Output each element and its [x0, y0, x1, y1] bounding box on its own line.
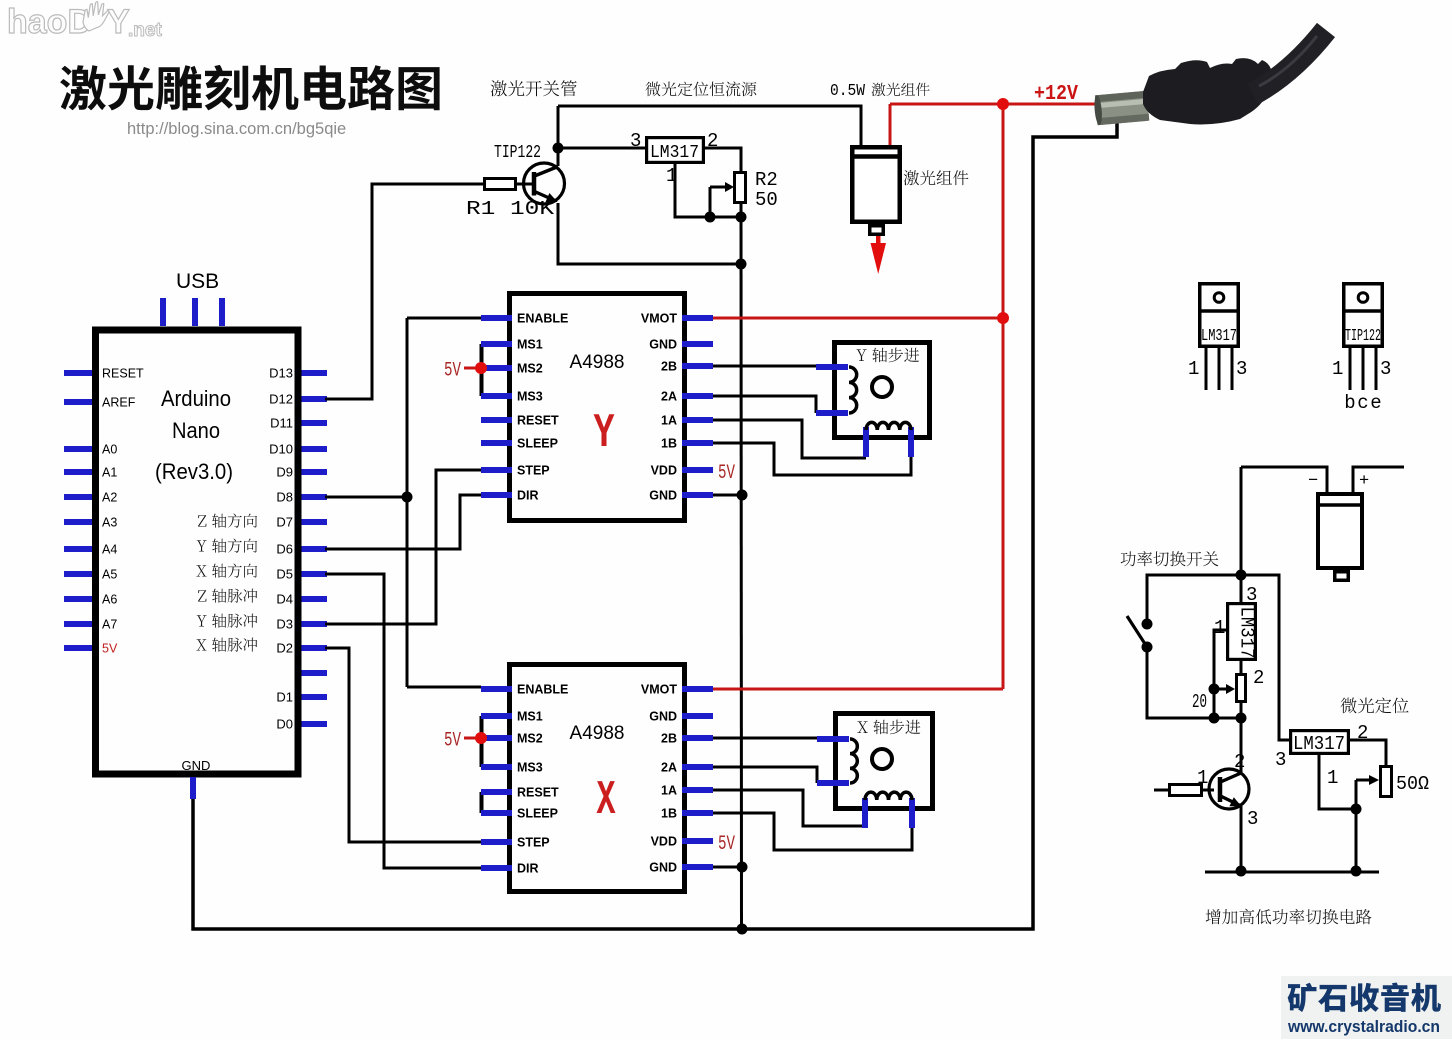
svg-text:2: 2	[707, 130, 718, 152]
svg-text:R1 10K: R1 10K	[466, 198, 555, 220]
svg-text:X: X	[597, 774, 616, 828]
svg-text:TIP122: TIP122	[1345, 327, 1381, 346]
svg-text:2: 2	[1234, 751, 1245, 773]
svg-text:2A: 2A	[661, 761, 677, 775]
svg-text:3: 3	[1275, 749, 1286, 771]
svg-text:SLEEP: SLEEP	[517, 437, 558, 451]
svg-text:2B: 2B	[661, 360, 677, 374]
svg-text:MS3: MS3	[517, 761, 543, 775]
svg-text:2B: 2B	[661, 732, 677, 746]
svg-text:VMOT: VMOT	[641, 683, 677, 697]
svg-text:1: 1	[1188, 358, 1199, 380]
svg-text:D12: D12	[269, 392, 293, 407]
svg-text:ENABLE: ENABLE	[517, 312, 568, 326]
svg-text:1B: 1B	[661, 437, 677, 451]
svg-text:3: 3	[630, 130, 641, 152]
svg-text:5V: 5V	[718, 462, 735, 485]
svg-text:MS1: MS1	[517, 710, 543, 724]
svg-text:A6: A6	[102, 593, 117, 607]
svg-text:0.5W: 0.5W	[830, 82, 866, 101]
svg-text:D2: D2	[276, 641, 293, 656]
svg-text:DIR: DIR	[517, 489, 539, 503]
svg-text:TIP122: TIP122	[494, 143, 541, 163]
svg-text:MS2: MS2	[517, 362, 543, 376]
svg-text:D13: D13	[269, 366, 293, 381]
svg-text:50: 50	[755, 189, 778, 211]
svg-text:1B: 1B	[661, 807, 677, 821]
svg-text:1: 1	[1197, 767, 1208, 789]
svg-text:LM317: LM317	[1201, 327, 1237, 346]
svg-text:A4: A4	[102, 543, 117, 557]
svg-text:5V: 5V	[444, 360, 461, 383]
svg-text:D8: D8	[276, 490, 293, 505]
svg-text:2: 2	[1253, 667, 1264, 689]
svg-text:A3: A3	[102, 516, 117, 530]
svg-text:A7: A7	[102, 618, 117, 632]
svg-text:LM317: LM317	[1236, 607, 1258, 659]
svg-text:AREF: AREF	[102, 396, 136, 410]
svg-text:VDD: VDD	[651, 835, 677, 849]
svg-text:Y: Y	[107, 3, 130, 41]
svg-text:SLEEP: SLEEP	[517, 807, 558, 821]
svg-text:GND: GND	[649, 489, 677, 503]
svg-text:D0: D0	[276, 717, 293, 732]
svg-text:A4988: A4988	[570, 723, 625, 744]
svg-text:A2: A2	[102, 491, 117, 505]
svg-text:http://blog.sina.com.cn/bg5qie: http://blog.sina.com.cn/bg5qie	[127, 120, 346, 138]
svg-text:A1: A1	[102, 466, 117, 480]
svg-text:D7: D7	[276, 515, 293, 530]
svg-text:D6: D6	[276, 542, 293, 557]
svg-text:1: 1	[666, 165, 677, 187]
svg-text:GND: GND	[649, 338, 677, 352]
svg-text:5V: 5V	[444, 730, 461, 753]
svg-text:3: 3	[1236, 358, 1247, 380]
svg-text:DIR: DIR	[517, 862, 539, 876]
svg-text:RESET: RESET	[102, 367, 144, 381]
svg-text:−: −	[1308, 472, 1318, 491]
svg-text:D5: D5	[276, 567, 293, 582]
svg-text:LM317: LM317	[650, 143, 699, 163]
svg-text:e: e	[1370, 392, 1381, 414]
svg-text:VMOT: VMOT	[641, 312, 677, 326]
svg-text:RESET: RESET	[517, 414, 559, 428]
svg-text:MS2: MS2	[517, 732, 543, 746]
svg-text:haoD: haoD	[7, 3, 92, 41]
svg-text:STEP: STEP	[517, 836, 550, 850]
svg-text:2A: 2A	[661, 390, 677, 404]
svg-text:LM317: LM317	[1293, 733, 1345, 755]
svg-text:1: 1	[1214, 617, 1225, 639]
svg-text:1: 1	[1327, 767, 1338, 789]
svg-text:Y: Y	[594, 407, 615, 461]
svg-text:MS3: MS3	[517, 390, 543, 404]
svg-text:D1: D1	[276, 690, 293, 705]
svg-text:1A: 1A	[661, 414, 677, 428]
svg-text:MS1: MS1	[517, 338, 543, 352]
svg-text:1A: 1A	[661, 784, 677, 798]
svg-text:GND: GND	[649, 710, 677, 724]
svg-text:50Ω: 50Ω	[1396, 773, 1429, 795]
svg-text:D4: D4	[276, 592, 293, 607]
svg-text:R2: R2	[755, 169, 778, 191]
svg-text:A4988: A4988	[570, 352, 625, 373]
svg-text:Arduino: Arduino	[161, 386, 231, 411]
svg-text:A0: A0	[102, 443, 117, 457]
svg-text:VDD: VDD	[651, 464, 677, 478]
svg-text:www.crystalradio.cn: www.crystalradio.cn	[1287, 1018, 1440, 1036]
svg-text:D9: D9	[276, 465, 293, 480]
svg-text:3: 3	[1380, 358, 1391, 380]
svg-text:1: 1	[1332, 358, 1343, 380]
svg-text:GND: GND	[649, 861, 677, 875]
svg-text:.net: .net	[128, 20, 162, 41]
svg-text:5V: 5V	[102, 642, 118, 656]
svg-text:A5: A5	[102, 568, 117, 582]
svg-text:ENABLE: ENABLE	[517, 683, 568, 697]
svg-text:+12V: +12V	[1034, 83, 1078, 106]
svg-text:D3: D3	[276, 617, 293, 632]
svg-text:3: 3	[1246, 584, 1257, 606]
svg-text:D10: D10	[269, 442, 293, 457]
svg-text:STEP: STEP	[517, 464, 550, 478]
svg-text:b: b	[1344, 392, 1355, 414]
svg-text:USB: USB	[176, 270, 219, 293]
svg-text:2: 2	[1357, 722, 1368, 744]
svg-text:c: c	[1357, 392, 1368, 414]
svg-text:+: +	[1359, 472, 1369, 491]
svg-text:GND: GND	[182, 758, 211, 773]
svg-text:5V: 5V	[718, 833, 735, 856]
svg-text:3: 3	[1247, 808, 1258, 830]
svg-text:20: 20	[1192, 691, 1207, 713]
svg-text:RESET: RESET	[517, 786, 559, 800]
svg-text:(Rev3.0): (Rev3.0)	[155, 459, 233, 484]
svg-text:Nano: Nano	[172, 418, 220, 443]
svg-text:D11: D11	[270, 416, 293, 431]
